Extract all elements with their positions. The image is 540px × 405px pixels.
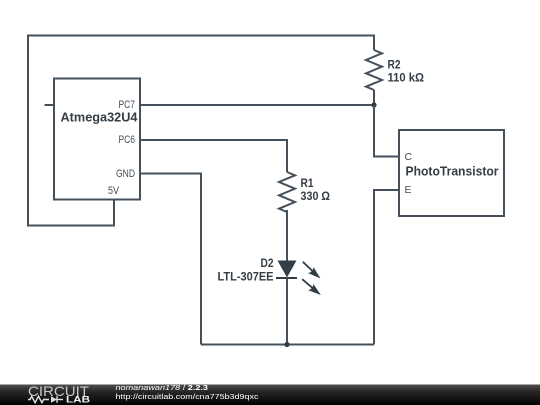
wire R2 bottom to node A: [373, 90, 375, 105]
footer bar background: [0, 385, 540, 405]
wire 5V loop from Atmega 5V pin to R2 top: [28, 36, 374, 226]
svg-text:Atmega32U4: Atmega32U4: [61, 110, 138, 124]
svg-text:http://circuitlab.com/cna775b3: http://circuitlab.com/cna775b3d9qxc: [116, 392, 259, 401]
svg-text:D2: D2: [261, 258, 274, 270]
wire D2 cathode to bottom node B: [286, 278, 288, 345]
svg-text:5V: 5V: [108, 185, 120, 197]
wire GND pin down to bottom rail: [140, 174, 201, 345]
svg-text:PC6: PC6: [119, 134, 136, 146]
svg-text:110 kΩ: 110 kΩ: [388, 73, 425, 85]
svg-text:E: E: [405, 184, 412, 196]
resistor R1: [279, 172, 295, 212]
wire PC6 to R1 top: [140, 140, 287, 172]
svg-text:PC7: PC7: [119, 99, 136, 111]
svg-text:LAB: LAB: [66, 394, 91, 404]
wire PhotoTransistor E pin to bottom rail: [374, 190, 399, 345]
IC U1 Atmega32U4 body: [54, 79, 140, 200]
node A junction dot (R2 / PC7 / C): [371, 102, 376, 107]
svg-text:LTL-307EE: LTL-307EE: [218, 272, 274, 284]
IC U2 PhotoTransistor body: [399, 130, 504, 216]
wire node A to PhotoTransistor C pin: [374, 105, 399, 157]
node B junction dot (bottom rail / D2 cathode): [284, 342, 289, 347]
IC U1 unconnected left pin stub: [45, 104, 55, 106]
resistor R2: [366, 50, 382, 90]
wire R1 bottom to LED D2 anode: [286, 210, 288, 261]
wire bottom rail: [201, 344, 374, 346]
svg-text:PhotoTransistor: PhotoTransistor: [406, 164, 499, 178]
wire PC7 to node A: [140, 104, 374, 106]
svg-text:GND: GND: [116, 168, 135, 180]
svg-text:R1: R1: [301, 178, 315, 190]
LED D2 symbol: [276, 261, 323, 299]
svg-text:R2: R2: [388, 60, 401, 72]
svg-text:C: C: [405, 151, 413, 163]
svg-text:330 Ω: 330 Ω: [301, 191, 331, 203]
CircuitLab logo resistor-diode glyph: [28, 396, 63, 403]
svg-text:nomanawan178 / 2.2.3: nomanawan178 / 2.2.3: [116, 383, 209, 392]
